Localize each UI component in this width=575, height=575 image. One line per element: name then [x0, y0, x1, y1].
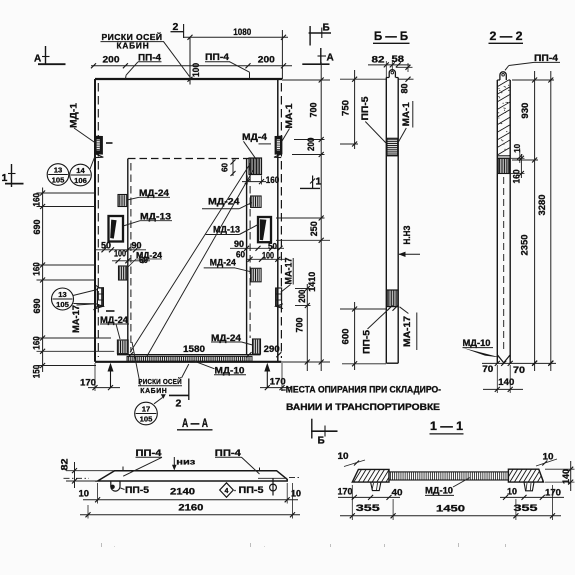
svg-text:низ: низ	[176, 457, 195, 467]
svg-text:690: 690	[32, 299, 43, 314]
svg-text:1 — 1: 1 — 1	[430, 419, 463, 433]
svg-text:Б: Б	[323, 23, 330, 34]
svg-text:80: 80	[399, 83, 409, 93]
svg-text:ПП-5: ПП-5	[125, 485, 149, 495]
svg-text:160: 160	[31, 336, 41, 350]
svg-text:МД-24: МД-24	[208, 197, 240, 207]
svg-text:МД-10: МД-10	[463, 338, 491, 348]
svg-text:170: 170	[80, 377, 96, 387]
svg-text:ι: ι	[330, 543, 331, 549]
svg-text:РИСКИ ОСЕЙ: РИСКИ ОСЕЙ	[138, 377, 182, 386]
svg-text:КАБИН: КАБИН	[117, 41, 150, 50]
svg-text:ВАНИИ И ТРАНСПОРТИРОВКЕ: ВАНИИ И ТРАНСПОРТИРОВКЕ	[286, 402, 440, 412]
svg-text:2 — 2: 2 — 2	[490, 29, 523, 43]
svg-text:2350: 2350	[519, 235, 530, 256]
svg-text:МД-10: МД-10	[425, 485, 453, 495]
svg-text:Б — Б: Б — Б	[374, 29, 408, 43]
svg-text:150: 150	[31, 365, 41, 379]
svg-text:2: 2	[176, 398, 182, 410]
svg-text:90: 90	[234, 239, 244, 249]
svg-text:82: 82	[372, 54, 385, 64]
svg-text:ПП-5: ПП-5	[239, 485, 264, 495]
svg-text:200: 200	[103, 54, 120, 65]
svg-text:140: 140	[498, 377, 514, 387]
svg-text:А — А: А — А	[182, 416, 208, 430]
svg-text:4: 4	[225, 488, 229, 495]
svg-text:690: 690	[32, 220, 43, 235]
svg-text:160: 160	[31, 193, 41, 207]
svg-text:МД-1: МД-1	[68, 103, 78, 128]
svg-text:100: 100	[191, 63, 201, 77]
svg-text:170: 170	[545, 488, 561, 498]
svg-text:600: 600	[340, 329, 351, 345]
svg-text:Ι: Ι	[101, 543, 102, 549]
svg-text:750: 750	[340, 100, 351, 116]
svg-text:106: 106	[74, 176, 87, 185]
svg-text:2140: 2140	[170, 487, 195, 498]
svg-text:.: .	[264, 543, 265, 549]
svg-text:200: 200	[297, 290, 307, 303]
svg-text:82: 82	[60, 458, 70, 470]
svg-text:ι: ι	[384, 543, 385, 549]
svg-text:10: 10	[507, 486, 517, 496]
svg-text:105: 105	[56, 300, 69, 309]
svg-text:14: 14	[76, 166, 85, 175]
svg-text:–МЕСТА ОПИРАНИЯ ПРИ СКЛАДИРО-: –МЕСТА ОПИРАНИЯ ПРИ СКЛАДИРО-	[281, 385, 441, 395]
svg-text:10: 10	[338, 451, 349, 461]
svg-text:А: А	[34, 54, 41, 65]
svg-text:ПП-4: ПП-4	[534, 53, 559, 63]
svg-text:МД-10: МД-10	[215, 365, 245, 375]
svg-text:50: 50	[268, 241, 277, 251]
svg-text:МА-17: МА-17	[283, 257, 293, 284]
svg-text:Ι: Ι	[458, 543, 459, 549]
svg-text:160: 160	[266, 175, 280, 185]
svg-text:МД-24: МД-24	[211, 333, 241, 343]
svg-text:ПП-5: ПП-5	[361, 330, 371, 354]
svg-text:10: 10	[79, 489, 90, 499]
svg-text:13: 13	[58, 290, 66, 299]
svg-text:.: .	[114, 543, 115, 549]
svg-text:930: 930	[520, 103, 531, 119]
svg-text:МД-13: МД-13	[140, 212, 171, 222]
svg-text:58: 58	[392, 54, 405, 64]
svg-text:МД-4: МД-4	[242, 132, 268, 142]
svg-text:17: 17	[142, 405, 150, 414]
svg-text:А: А	[327, 53, 334, 64]
svg-text:Н.НЗ: Н.НЗ	[402, 225, 412, 244]
svg-text:3280: 3280	[537, 195, 548, 216]
svg-text:700: 700	[308, 103, 319, 118]
svg-text:700: 700	[295, 318, 306, 333]
svg-text:13: 13	[54, 166, 62, 175]
svg-text:170: 170	[338, 487, 353, 497]
svg-text:105: 105	[52, 176, 65, 185]
svg-text:2160: 2160	[178, 503, 203, 514]
svg-text:МА-1: МА-1	[284, 104, 294, 129]
svg-text:355: 355	[356, 503, 381, 514]
svg-text:1580: 1580	[183, 344, 205, 354]
svg-text:МА-17: МА-17	[402, 316, 412, 347]
svg-text:40: 40	[392, 487, 403, 497]
svg-text:290: 290	[264, 344, 280, 354]
svg-text:ПП-5: ПП-5	[360, 97, 370, 121]
svg-text:160: 160	[31, 262, 41, 276]
svg-text:1: 1	[316, 176, 322, 188]
svg-text:1080: 1080	[233, 27, 251, 38]
svg-text:200: 200	[258, 55, 275, 66]
svg-text:МД-13: МД-13	[213, 224, 240, 234]
svg-text:50: 50	[101, 240, 111, 250]
svg-text:МА-17: МА-17	[71, 305, 81, 333]
svg-text:105: 105	[140, 415, 153, 424]
svg-text:355: 355	[514, 503, 539, 514]
svg-text:160: 160	[512, 169, 522, 183]
svg-text:МА-1: МА-1	[401, 102, 411, 126]
svg-text:1: 1	[2, 172, 8, 184]
svg-text:Б: Б	[318, 436, 325, 447]
svg-text:КАБИН: КАБИН	[140, 386, 167, 395]
svg-text:1450: 1450	[436, 504, 465, 515]
svg-text:70: 70	[482, 364, 493, 374]
svg-text:70: 70	[513, 365, 525, 375]
svg-text:МД-24: МД-24	[210, 258, 236, 268]
svg-text:60: 60	[236, 250, 245, 260]
svg-text:200: 200	[306, 138, 316, 152]
svg-text:60: 60	[219, 163, 229, 172]
svg-text:10: 10	[543, 452, 554, 462]
svg-text:250: 250	[309, 221, 320, 236]
svg-text:ПП-4: ПП-4	[138, 53, 162, 63]
svg-text:ПП-4: ПП-4	[205, 52, 230, 62]
svg-text:10: 10	[512, 144, 522, 153]
svg-text:Ι: Ι	[250, 543, 251, 549]
svg-text:МД-24: МД-24	[100, 315, 128, 325]
svg-text:ι: ι	[505, 543, 506, 549]
svg-text:МД-24: МД-24	[139, 188, 169, 198]
